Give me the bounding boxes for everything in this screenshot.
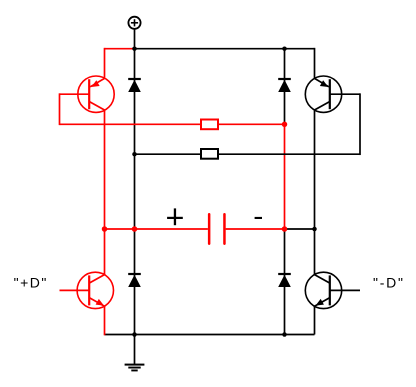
svg-text:"-D": "-D": [373, 275, 405, 291]
svg-text:"+D": "+D": [14, 275, 48, 291]
